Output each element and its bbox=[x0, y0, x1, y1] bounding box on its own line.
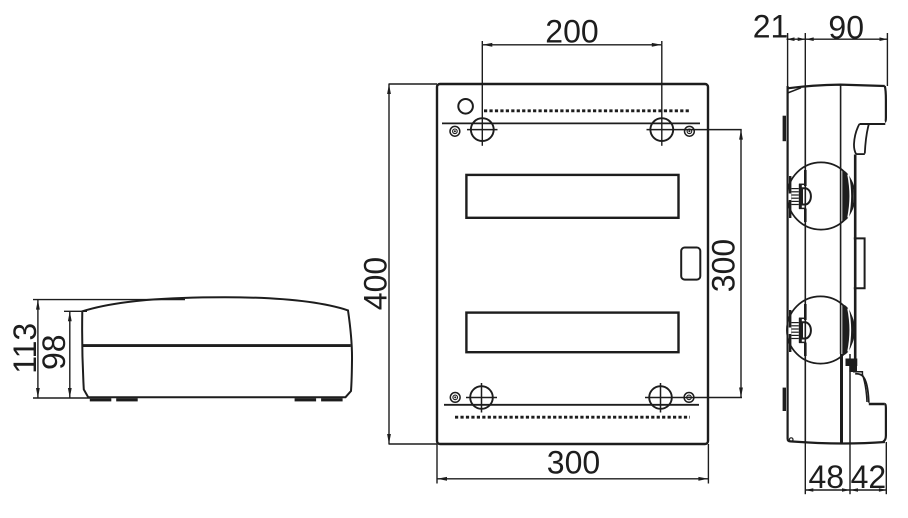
svg-text:21: 21 bbox=[753, 9, 789, 45]
svg-text:400: 400 bbox=[357, 257, 393, 310]
svg-text:98: 98 bbox=[36, 334, 72, 370]
svg-text:300: 300 bbox=[705, 239, 741, 292]
svg-text:42: 42 bbox=[851, 459, 887, 495]
svg-text:48: 48 bbox=[809, 459, 845, 495]
svg-text:200: 200 bbox=[545, 14, 598, 50]
svg-text:300: 300 bbox=[547, 445, 600, 481]
svg-text:90: 90 bbox=[828, 10, 864, 46]
